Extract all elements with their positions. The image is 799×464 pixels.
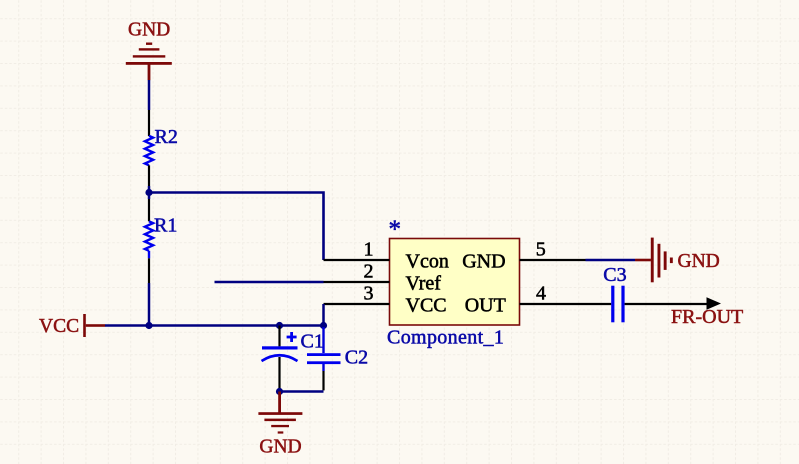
- svg-text:C1: C1: [301, 331, 324, 353]
- pin 1 Vcon: [324, 238, 449, 272]
- svg-text:FR-OUT: FR-OUT: [671, 306, 743, 328]
- svg-text:Vref: Vref: [406, 272, 442, 294]
- junction node (R1/R2): [145, 189, 152, 196]
- junction node C2 top: [320, 322, 327, 329]
- power port GND (bottom): [258, 392, 302, 458]
- wire R1 top: [148, 193, 151, 222]
- wire R1 bottom: [148, 251, 150, 326]
- svg-text:3: 3: [364, 282, 374, 304]
- svg-text:4: 4: [536, 282, 546, 304]
- svg-text:Vcon: Vcon: [406, 250, 449, 272]
- capacitor C1 (polarized): [262, 326, 298, 392]
- capacitor C3: [611, 286, 624, 323]
- svg-text:5: 5: [536, 238, 546, 260]
- wire C1/C2 bottom: [280, 390, 324, 393]
- svg-text:GND: GND: [678, 251, 720, 272]
- power port VCC: [39, 314, 105, 337]
- svg-text:GND: GND: [128, 20, 170, 41]
- svg-text:R2: R2: [155, 126, 178, 148]
- resistor R1: [145, 221, 153, 251]
- wire R2 to node: [148, 165, 150, 192]
- junction node C1 top: [276, 322, 283, 329]
- IC Component_1 body: [390, 239, 520, 326]
- resistor R2: [145, 136, 153, 166]
- power port GND (top): [126, 20, 172, 81]
- pin 3 VCC: [324, 282, 447, 325]
- wire node to pin 1: [149, 193, 324, 261]
- junction node GND bottom: [276, 388, 283, 395]
- junction node VCC/R1: [145, 322, 152, 329]
- wire VCC rail: [105, 324, 324, 327]
- svg-text:OUT: OUT: [465, 294, 506, 316]
- pin 5 GND: [462, 238, 635, 272]
- pin 2 Vref: [215, 260, 442, 294]
- power port GND (right): [635, 238, 720, 283]
- svg-text:R1: R1: [154, 214, 177, 236]
- svg-text:VCC: VCC: [39, 316, 79, 337]
- svg-text:GND: GND: [462, 250, 505, 272]
- svg-text:C3: C3: [603, 264, 626, 286]
- svg-text:1: 1: [364, 238, 374, 260]
- svg-text:2: 2: [364, 260, 374, 282]
- svg-text:C2: C2: [345, 347, 368, 369]
- svg-text:GND: GND: [259, 436, 301, 457]
- svg-text:VCC: VCC: [406, 294, 447, 316]
- svg-text:*: *: [389, 216, 402, 243]
- svg-text:Component_1: Component_1: [387, 326, 504, 348]
- wire C3 to FR-OUT: [625, 297, 721, 309]
- pin 4 OUT: [465, 282, 612, 316]
- capacitor C2: [307, 327, 341, 390]
- wire GND to R2: [148, 80, 151, 136]
